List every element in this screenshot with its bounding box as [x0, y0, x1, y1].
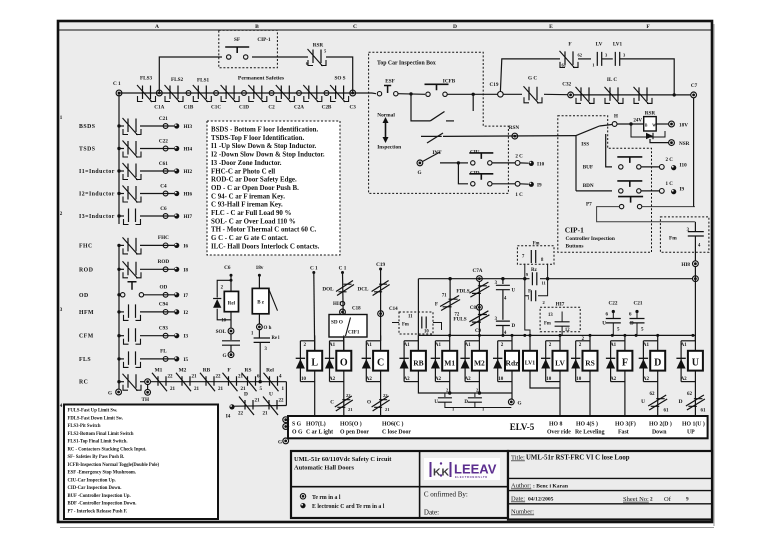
- svg-text:ISS: ISS: [581, 142, 589, 148]
- wire to C19: [448, 93, 499, 95]
- svg-text:G: G: [518, 401, 522, 407]
- svg-text:G C: G C: [528, 76, 537, 82]
- svg-text:W: W: [652, 124, 656, 128]
- svg-text:A1: A1: [465, 343, 472, 348]
- svg-text:O pen Door: O pen Door: [340, 430, 369, 436]
- svg-text:UML-51r RST-FRC VI C lose Loop: UML-51r RST-FRC VI C lose Loop: [526, 455, 630, 462]
- svg-text:C: C: [330, 400, 334, 406]
- card terminal I4: [229, 404, 234, 409]
- wire RB M1 M2 bottoms: [418, 386, 512, 393]
- svg-text:I3=Inductor: I3=Inductor: [79, 214, 115, 220]
- svg-text:C4: C4: [160, 183, 167, 189]
- svg-text:FHC: FHC: [79, 243, 93, 249]
- svg-text:I3: I3: [184, 334, 189, 340]
- svg-text:SF- Safeties By Pass Push B.: SF- Safeties By Pass Push B.: [68, 455, 125, 460]
- diode of relay LV: [546, 340, 560, 342]
- svg-text:61: 61: [701, 409, 707, 414]
- svg-text:I2 -Down Slow Down & Stop Indu: I2 -Down Slow Down & Stop Inductor.: [211, 152, 325, 159]
- svg-text:TSDS-Top F loor Identification: TSDS-Top F loor Identification.: [211, 135, 304, 142]
- svg-text:F: F: [528, 290, 531, 295]
- svg-text:HO 2(D ): HO 2(D ): [649, 420, 672, 427]
- svg-text:Top Car Inspection Box: Top Car Inspection Box: [377, 61, 436, 67]
- box Fm capacitor: [660, 217, 709, 252]
- svg-text:12: 12: [565, 328, 570, 333]
- legend terminal symbol: [300, 494, 305, 499]
- card terminal I2: [174, 309, 179, 314]
- terminal G strip: [283, 438, 289, 444]
- relay coil RS: [589, 335, 591, 386]
- contact M2 stacking: [182, 376, 190, 386]
- card terminal I10: [529, 161, 534, 166]
- svg-text:C: C: [377, 358, 384, 369]
- wire U bottom via D contact: [694, 386, 696, 417]
- svg-text:I4: I4: [226, 414, 231, 420]
- terminal G inspection: [417, 160, 423, 166]
- wire F LV LV1 branch: [500, 59, 560, 92]
- svg-text:C1A: C1A: [154, 105, 164, 111]
- wire 24V: [617, 123, 644, 125]
- capacitor D 3-4: [496, 321, 510, 325]
- svg-text:Fm: Fm: [402, 323, 409, 328]
- terminal C32: [568, 92, 574, 98]
- svg-text:C19: C19: [376, 262, 385, 268]
- terminal FL: [163, 357, 168, 362]
- svg-text:I3 -Door Zone Inductor.: I3 -Door Zone Inductor.: [211, 160, 282, 167]
- svg-text:D: D: [464, 400, 468, 405]
- wire L to strip: [314, 386, 316, 417]
- card terminal HI6: [174, 191, 179, 196]
- diode of relay U: [681, 340, 695, 342]
- svg-text:C lose Door: C lose Door: [382, 430, 411, 436]
- wire to LV1: [525, 296, 530, 336]
- svg-text:M1: M1: [444, 359, 455, 368]
- wire F 71-72 branch: [449, 279, 451, 336]
- svg-text:E: E: [549, 24, 553, 30]
- wire RC chain: [150, 381, 286, 383]
- svg-text:ELV-5: ELV-5: [510, 422, 535, 432]
- svg-text:RSR: RSR: [313, 43, 324, 49]
- wire middle bus left: [418, 278, 529, 280]
- svg-text:RS: RS: [245, 368, 252, 374]
- wire CID feed: [458, 163, 468, 184]
- wire D bottom via U contact: [657, 386, 659, 417]
- safety contact 4: [226, 86, 234, 100]
- svg-text:OD - C ar Open Door Push B.: OD - C ar Open Door Push B.: [211, 185, 299, 192]
- svg-text:BUF -Controller Inspection Up.: BUF -Controller Inspection Up.: [68, 494, 131, 499]
- terminal C2B: [324, 91, 329, 96]
- svg-text:DOL: DOL: [322, 287, 334, 293]
- push button SF: [227, 55, 231, 59]
- svg-text:A2: A2: [366, 377, 373, 382]
- svg-text:OD: OD: [160, 285, 168, 291]
- svg-text:A2: A2: [404, 377, 411, 382]
- relay coil LV: [559, 335, 561, 386]
- svg-text:O: O: [367, 400, 371, 406]
- terminal FHC: [163, 243, 168, 248]
- wire: [520, 183, 529, 185]
- terminal Oh: [257, 324, 263, 330]
- safety contact 1: [143, 86, 151, 100]
- diode of relay F: [611, 340, 625, 342]
- svg-text:F: F: [435, 302, 438, 308]
- svg-text:HI2: HI2: [184, 169, 193, 175]
- capacitor Fm 3-4: [694, 222, 696, 232]
- svg-text:18V: 18V: [679, 123, 688, 129]
- wire HI8 to bus: [694, 266, 696, 341]
- svg-text:Fm: Fm: [533, 242, 540, 247]
- svg-text:U: U: [269, 392, 273, 398]
- svg-text:BSDS: BSDS: [79, 124, 96, 130]
- svg-text:I1 -Up Slow Down & Stop Induct: I1 -Up Slow Down & Stop Inductor.: [211, 143, 317, 150]
- svg-text:61: 61: [664, 409, 670, 414]
- legend box switch list: [64, 405, 218, 520]
- svg-text:L: L: [311, 358, 318, 369]
- svg-text:D: D: [512, 324, 516, 329]
- wire Rz network rails: [524, 264, 526, 279]
- relay coil U: [694, 335, 696, 386]
- svg-text:CIF1: CIF1: [348, 330, 360, 336]
- svg-text:C22: C22: [159, 138, 168, 144]
- contact ILC 3: [639, 87, 647, 101]
- contact U interlock: [269, 400, 277, 410]
- svg-text:Rdz: Rdz: [506, 359, 520, 368]
- diode of relay RB: [404, 340, 418, 342]
- svg-text:Date:: Date:: [424, 509, 439, 517]
- terminal C94: [163, 310, 168, 315]
- diode RSR: [631, 124, 665, 137]
- svg-text:A1: A1: [681, 343, 688, 348]
- svg-text:22: 22: [238, 412, 244, 417]
- contact ILC 1: [581, 87, 589, 101]
- relay coil LV1: [529, 335, 531, 386]
- svg-text:Number:: Number:: [511, 509, 534, 516]
- svg-text:2: 2: [650, 497, 653, 503]
- wire CIU row: [458, 162, 468, 164]
- svg-text:I2: I2: [184, 310, 189, 316]
- svg-text:U: U: [692, 358, 699, 369]
- wire to LV: [559, 335, 561, 338]
- wire: [230, 312, 232, 328]
- svg-text:HI7: HI7: [556, 302, 565, 308]
- svg-text:RC: RC: [79, 380, 88, 386]
- svg-text:Fm: Fm: [544, 322, 551, 327]
- terminal C6: [163, 214, 168, 219]
- terminal C2A: [297, 91, 302, 96]
- terminal C7: [691, 92, 697, 98]
- toggle lower blade: [421, 135, 442, 137]
- svg-text:22: 22: [168, 375, 174, 380]
- svg-text:HO7(L): HO7(L): [306, 420, 326, 427]
- terminal ROD: [163, 267, 168, 272]
- svg-text:C1C: C1C: [211, 105, 221, 111]
- svg-text:21: 21: [218, 387, 224, 392]
- svg-text:A: A: [155, 24, 159, 30]
- svg-text:FULS: FULS: [453, 317, 466, 323]
- svg-text:I2=Inductor: I2=Inductor: [79, 192, 115, 198]
- svg-text:21: 21: [192, 375, 198, 380]
- svg-text:FLS: FLS: [79, 357, 91, 363]
- svg-text:I10: I10: [537, 162, 545, 168]
- wire: [398, 93, 425, 96]
- svg-text:HI7: HI7: [184, 214, 193, 220]
- relay coil O: [343, 335, 345, 386]
- svg-text:21: 21: [170, 387, 176, 392]
- terminal C1C: [214, 91, 219, 96]
- relay coil M2: [478, 335, 480, 386]
- svg-text:A1: A1: [366, 343, 373, 348]
- capacitor FLC: [230, 334, 232, 340]
- legend card terminal symbol: [300, 503, 305, 508]
- contact RC: [128, 374, 136, 388]
- svg-text:21: 21: [255, 399, 261, 404]
- svg-text:FHC: FHC: [158, 235, 169, 241]
- svg-text:E L E C T R O N IC S L T D: E L E C T R O N IC S L T D: [455, 475, 487, 479]
- relay coil Rdz: [511, 335, 513, 386]
- card terminal I9: [529, 182, 534, 187]
- buzzer Bz: [252, 288, 269, 313]
- svg-text:A1: A1: [610, 343, 617, 348]
- svg-text:FLC - C ar Full Load 90 %: FLC - C ar Full Load 90 %: [211, 210, 292, 217]
- terminal C2: [269, 91, 274, 96]
- svg-text:Sheet No:: Sheet No:: [623, 496, 649, 503]
- svg-text:CFM: CFM: [79, 334, 94, 340]
- svg-text:G: G: [278, 439, 282, 445]
- svg-text:C ar L ight: C ar L ight: [306, 430, 333, 436]
- svg-text:IL C: IL C: [607, 77, 617, 83]
- terminal bus end: [693, 276, 699, 282]
- svg-text:F: F: [568, 42, 571, 48]
- wire: [620, 59, 674, 95]
- svg-text:I1=Inductor: I1=Inductor: [79, 169, 115, 175]
- wire top safety rail: [119, 92, 372, 94]
- wire C7 vertical: [693, 98, 695, 207]
- wire NSR: [650, 139, 669, 143]
- wire: [602, 58, 613, 60]
- diode of relay M2: [465, 340, 479, 342]
- wire: [493, 183, 516, 185]
- svg-text:M1: M1: [155, 368, 163, 374]
- svg-text:FDLS-Fast Down Limit Sw.: FDLS-Fast Down Limit Sw.: [68, 416, 123, 421]
- svg-text:Author:: Author:: [511, 483, 531, 490]
- svg-text:Inspection: Inspection: [377, 145, 401, 151]
- terminal TH: [145, 379, 151, 385]
- card terminal HI7: [174, 213, 179, 218]
- svg-text:C18: C18: [352, 307, 361, 312]
- box Rz 7-8: [517, 246, 554, 264]
- terminal strip ELV-5: [288, 416, 708, 438]
- svg-text:Fast: Fast: [618, 430, 629, 436]
- svg-text:C1B: C1B: [184, 105, 194, 111]
- svg-text:C8: C8: [470, 306, 477, 311]
- terminal OG: [283, 424, 289, 430]
- svg-text:Buttons: Buttons: [566, 244, 584, 250]
- wire RS bottom: [589, 386, 591, 417]
- wire: [578, 58, 591, 60]
- terminal H: [612, 122, 617, 127]
- svg-text:C 1: C 1: [339, 266, 347, 272]
- safety contact 5: [254, 86, 262, 100]
- svg-text:62: 62: [650, 392, 656, 397]
- svg-text:A2: A2: [329, 377, 336, 382]
- svg-text:TSDS: TSDS: [79, 147, 96, 153]
- svg-text:21: 21: [194, 387, 200, 392]
- relay coil RB: [417, 335, 419, 386]
- wire Bz to RC chain: [259, 342, 261, 381]
- card terminal I5: [174, 356, 179, 361]
- svg-text:ROD: ROD: [79, 267, 93, 273]
- svg-text:C2: C2: [268, 105, 275, 111]
- svg-text:A2: A2: [681, 377, 688, 382]
- wire: [258, 314, 260, 324]
- title block left: [291, 451, 508, 518]
- diode of relay Rdz: [498, 340, 512, 342]
- safety contact 7: [309, 86, 317, 100]
- terminal C22: [163, 146, 168, 151]
- svg-text:FL: FL: [160, 349, 167, 355]
- svg-text:C21: C21: [634, 301, 643, 307]
- terminal 2C: [515, 161, 520, 166]
- svg-text:9: 9: [686, 497, 689, 503]
- wire RSN to toggle ISS: [576, 126, 599, 136]
- svg-text:FLS2: FLS2: [171, 77, 184, 83]
- svg-text:D: D: [679, 399, 683, 405]
- terminal C19: [498, 92, 504, 98]
- capacitor U 2-1: [444, 393, 446, 397]
- contact RS stacking: [248, 376, 256, 386]
- box Fm 11-10: [399, 312, 433, 334]
- svg-text:10: 10: [221, 318, 226, 323]
- terminal C7A: [477, 276, 483, 282]
- svg-text:K: K: [433, 467, 441, 479]
- svg-text:A1: A1: [643, 343, 650, 348]
- contact Rel stacking: [270, 376, 278, 386]
- safety contact 3: [198, 86, 206, 100]
- svg-text:11: 11: [542, 281, 547, 286]
- svg-text:OD: OD: [79, 293, 89, 299]
- svg-text:ROD-C ar Door Safety Edge.: ROD-C ar Door Safety Edge.: [211, 177, 297, 184]
- diode of relay RS: [576, 340, 590, 342]
- svg-text:I10: I10: [680, 163, 688, 169]
- svg-text:UP: UP: [687, 430, 695, 436]
- svg-text:Down: Down: [652, 430, 667, 436]
- svg-text:Rel: Rel: [266, 368, 274, 374]
- wire P7 left loop: [597, 207, 695, 222]
- wire: [641, 190, 660, 192]
- legend box component list: [207, 121, 340, 255]
- svg-text:G: G: [108, 391, 112, 397]
- svg-text:C21: C21: [159, 116, 168, 122]
- svg-text:C61: C61: [159, 161, 168, 167]
- svg-text:Of: Of: [664, 496, 672, 503]
- svg-text:UML-51r 60/110Vdc Safety C irc: UML-51r 60/110Vdc Safety C ircuit: [294, 456, 392, 463]
- svg-text:S G: S G: [292, 421, 302, 427]
- interface box SDO CIF1: [329, 315, 367, 338]
- svg-text:H: H: [614, 115, 618, 120]
- terminal G coils: [511, 386, 513, 399]
- capacitor D 2-1: [474, 393, 476, 397]
- svg-text:1 C: 1 C: [666, 182, 674, 187]
- wire middle bus right: [540, 278, 693, 280]
- svg-text:D: D: [453, 24, 457, 30]
- svg-text:U: U: [641, 399, 645, 405]
- svg-text:SO S: SO S: [334, 76, 345, 82]
- svg-text:FLS2-Bottom Final Limit Switch: FLS2-Bottom Final Limit Switch: [68, 432, 134, 437]
- terminal 1C BDN: [659, 189, 664, 194]
- svg-text:Re l: Re l: [272, 336, 281, 341]
- svg-text:C14: C14: [389, 307, 398, 312]
- svg-text:10: 10: [546, 377, 552, 382]
- svg-text:1 C: 1 C: [515, 193, 523, 198]
- svg-text:HI4: HI4: [184, 147, 193, 153]
- wire BDN feed: [576, 190, 612, 192]
- wire P7 right: [642, 206, 695, 208]
- svg-text:C 93-Hall F ireman Key.: C 93-Hall F ireman Key.: [211, 202, 283, 209]
- svg-text:18v: 18v: [256, 265, 264, 271]
- contact ILC 2: [610, 87, 618, 101]
- svg-text:HI3: HI3: [184, 124, 193, 130]
- terminal C1: [116, 90, 122, 96]
- svg-text:FLS1: FLS1: [197, 78, 210, 84]
- wire INT toggle: [423, 152, 441, 162]
- wire C to strip via contact O: [380, 386, 382, 417]
- svg-text:RSR: RSR: [645, 111, 656, 117]
- svg-text:10: 10: [301, 377, 307, 382]
- svg-text:DCL: DCL: [358, 287, 369, 293]
- svg-text:Rz: Rz: [531, 268, 538, 273]
- svg-text:G: G: [222, 353, 226, 359]
- terminal C61: [163, 169, 168, 174]
- terminal C93: [163, 333, 168, 338]
- svg-text:D: D: [654, 358, 661, 369]
- svg-text:Normal: Normal: [377, 113, 395, 119]
- wire FDLS branch: [478, 281, 480, 335]
- diode of relay D: [643, 340, 657, 342]
- terminal NSR: [669, 140, 675, 146]
- wire RB feed: [417, 279, 419, 351]
- svg-text:61: 61: [562, 63, 567, 68]
- relay coil F: [624, 335, 626, 386]
- svg-text:CIU-Car Inspection Up.: CIU-Car Inspection Up.: [68, 478, 116, 483]
- svg-text:A2: A2: [610, 377, 617, 382]
- svg-text:Te rm in a l: Te rm in a l: [312, 495, 341, 501]
- svg-text:C94: C94: [159, 302, 168, 308]
- wire ILC row: [503, 93, 522, 95]
- svg-text:C19: C19: [490, 82, 499, 88]
- svg-text:Date:: Date:: [511, 496, 525, 503]
- diode of relay O: [330, 340, 344, 342]
- capacitor U 3-4: [502, 279, 504, 284]
- svg-text:LEEAV: LEEAV: [454, 462, 497, 477]
- svg-text:ESF: ESF: [385, 79, 395, 85]
- wire SF bypass: [159, 57, 222, 93]
- svg-text:21: 21: [263, 412, 269, 417]
- svg-text:M2: M2: [179, 368, 187, 374]
- svg-text:22: 22: [279, 399, 285, 404]
- wire 18V: [656, 123, 669, 125]
- svg-text:21: 21: [238, 375, 244, 380]
- svg-text:A2: A2: [643, 377, 650, 382]
- svg-text:CIP-1: CIP-1: [565, 226, 584, 235]
- terminal 18V: [669, 121, 675, 127]
- contact M1 stacking: [158, 376, 166, 386]
- svg-text:I5: I5: [184, 357, 189, 363]
- wire left bus upper: [118, 93, 120, 224]
- svg-text:Permanent Safeties: Permanent Safeties: [238, 76, 285, 82]
- svg-text:C6: C6: [160, 206, 167, 212]
- svg-text:CID-Car Inspection Down.: CID-Car Inspection Down.: [68, 486, 122, 491]
- svg-text:13: 13: [548, 313, 553, 318]
- terminal C1B: [186, 91, 191, 96]
